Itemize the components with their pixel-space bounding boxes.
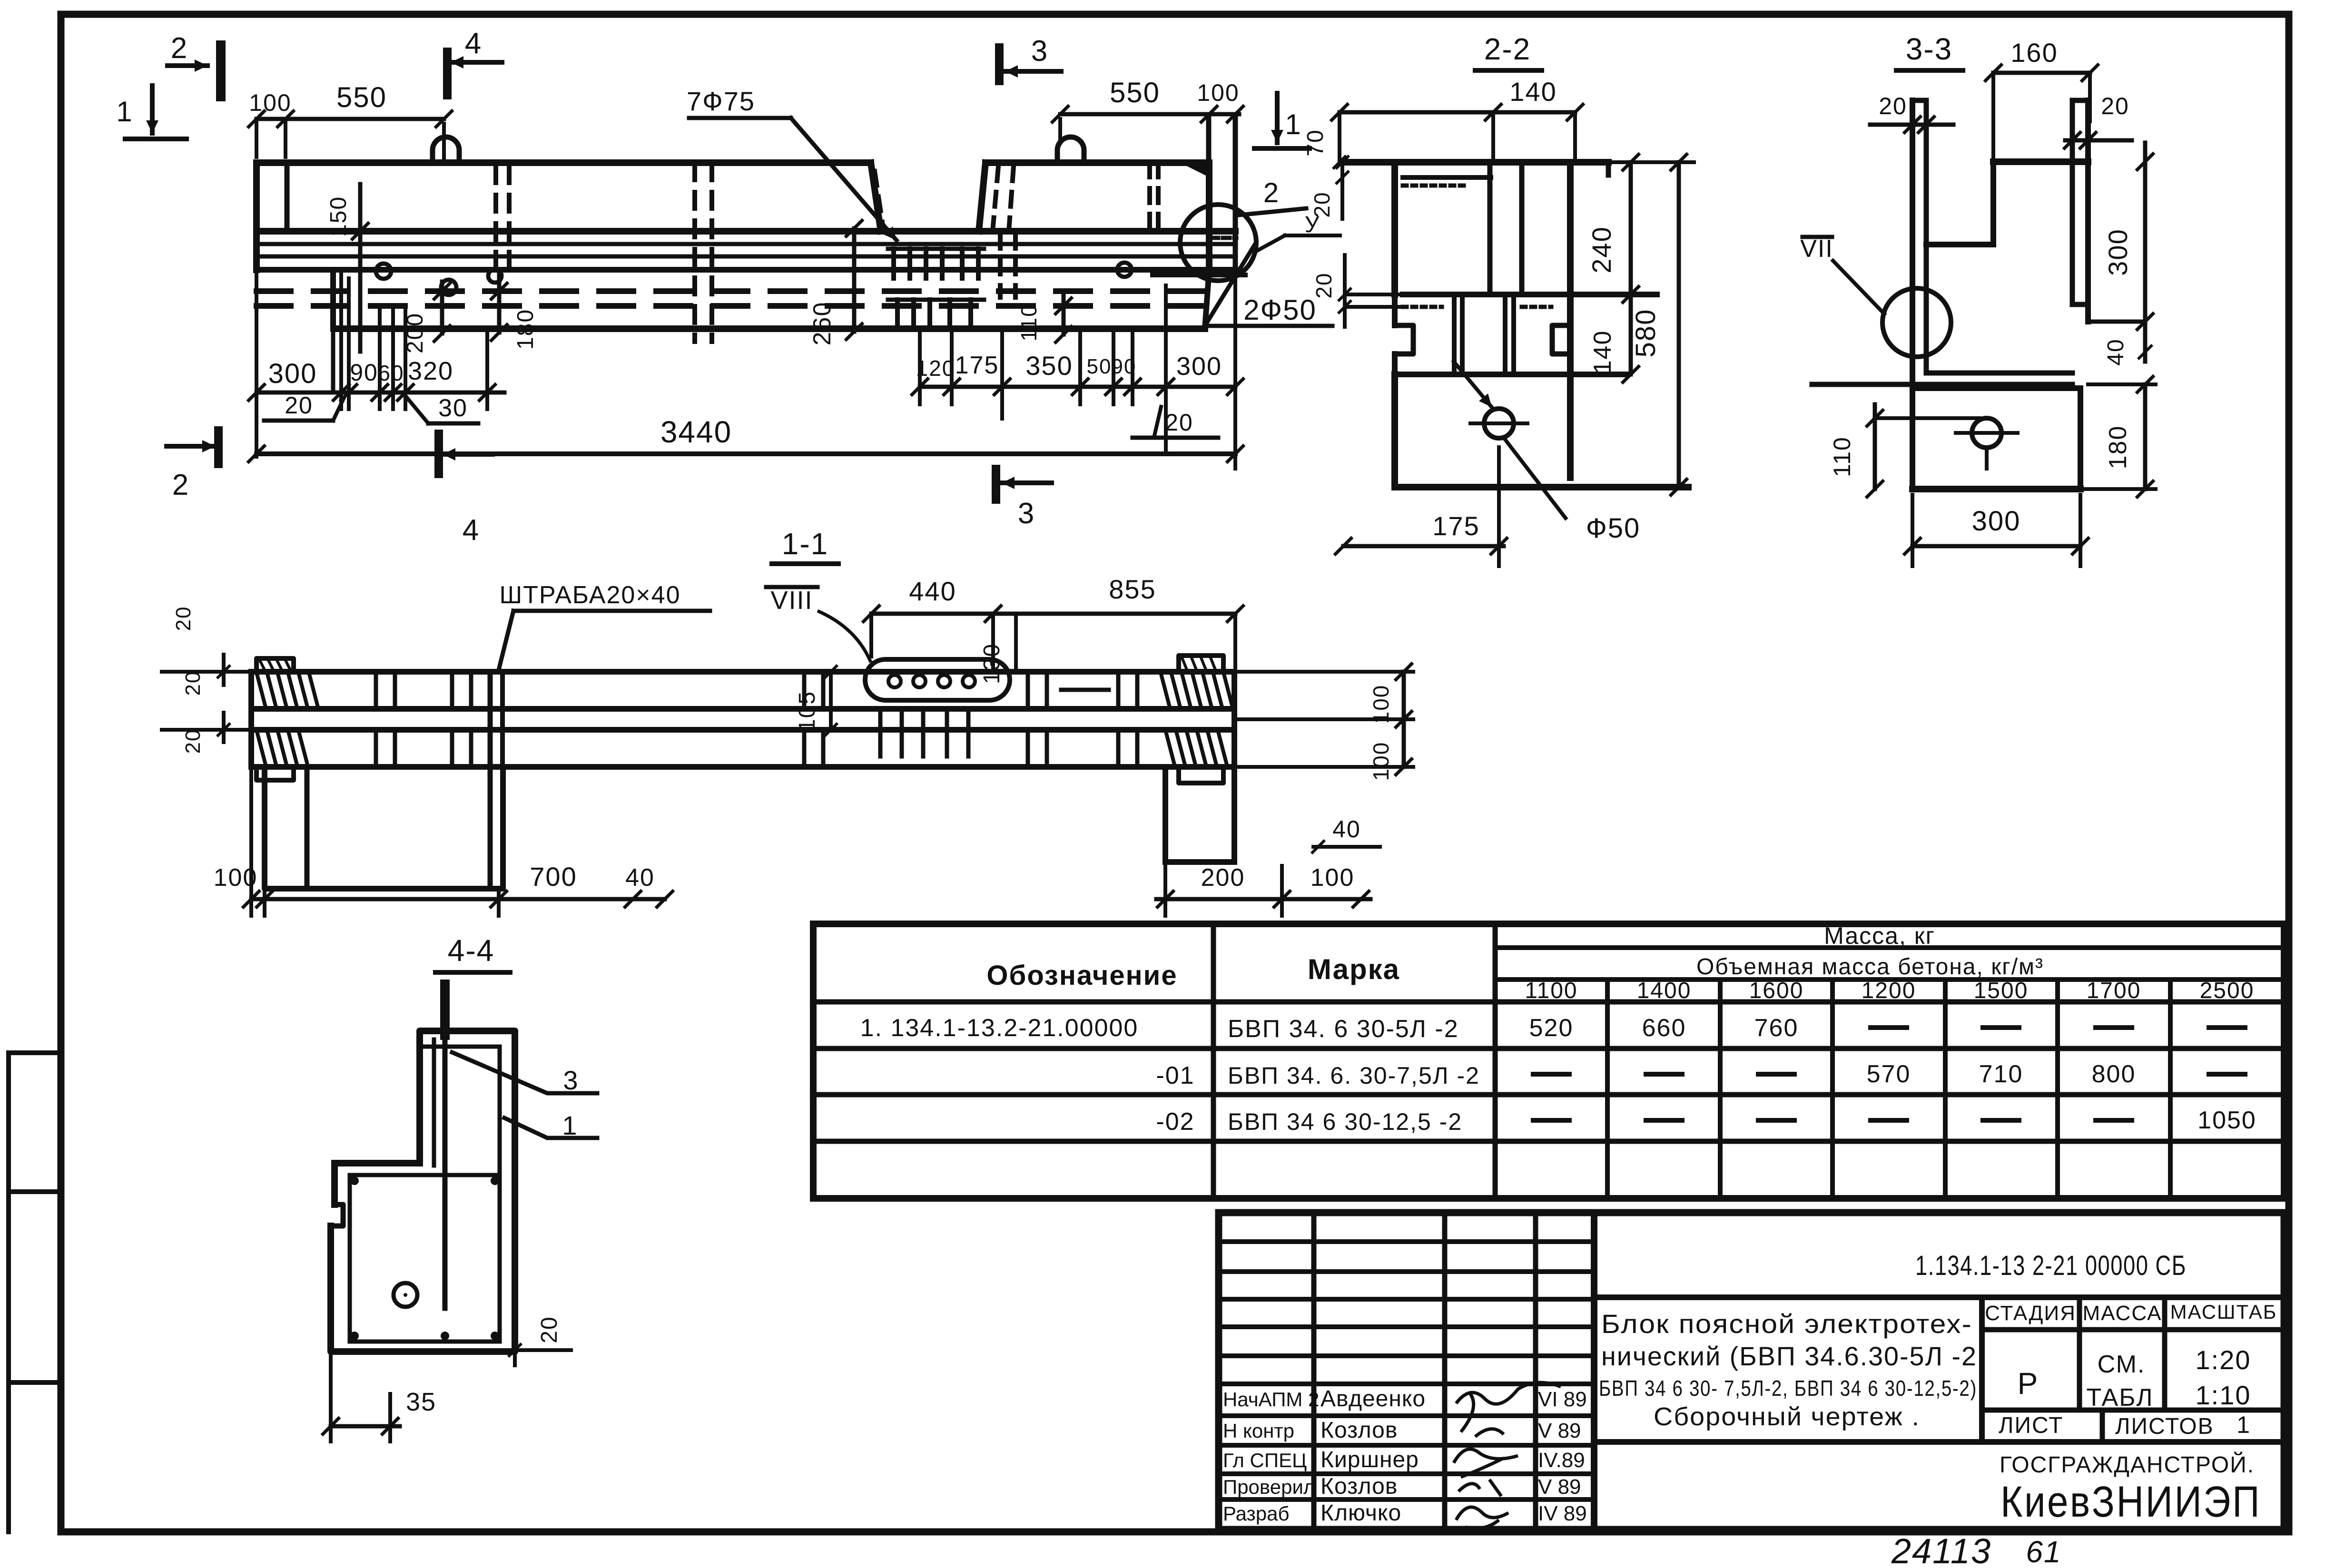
left column inner edge <box>285 163 290 231</box>
svg-text:20: 20 <box>1310 191 1334 217</box>
block A dashed verticals <box>692 164 697 342</box>
svg-text:Козлов: Козлов <box>1320 1418 1398 1443</box>
svg-text:105: 105 <box>795 691 820 732</box>
svg-text:1600: 1600 <box>1749 978 1804 1003</box>
svg-text:300: 300 <box>2103 228 2133 275</box>
section 2-2 bottom web slab line <box>1395 372 1626 377</box>
dim row 300/90/60/320 bottom left <box>256 391 504 395</box>
bottom of cavity long line <box>1812 382 2072 387</box>
svg-text:4: 4 <box>463 514 480 547</box>
svg-text:Н контр: Н контр <box>1223 1420 1294 1442</box>
label 2 with leader <box>1240 208 1306 215</box>
svg-text:-01: -01 <box>1156 1062 1194 1089</box>
rebar dots <box>350 1176 359 1185</box>
table numeric column line <box>1943 980 1948 1198</box>
svg-text:260: 260 <box>808 302 836 346</box>
svg-text:300: 300 <box>1972 506 2021 537</box>
svg-text:VIII: VIII <box>770 586 813 615</box>
dim 300 right <box>2143 143 2148 333</box>
svg-text:нический (БВП 34.6.30-5Л -2: нический (БВП 34.6.30-5Л -2 <box>1601 1341 1977 1371</box>
section 4-4 outline <box>331 1031 515 1352</box>
dim 110 vertical <box>1062 295 1066 334</box>
svg-text:1:20: 1:20 <box>2196 1345 2251 1375</box>
svg-text:2: 2 <box>172 469 189 501</box>
dim 110 left <box>1873 404 1877 489</box>
beam left end edge <box>253 163 260 270</box>
svg-text:2: 2 <box>1263 177 1280 208</box>
table col: marka/masses <box>1493 924 1498 1198</box>
svg-text:700: 700 <box>530 862 577 892</box>
svg-text:40: 40 <box>625 864 655 892</box>
dash clusters <box>374 674 378 706</box>
signature table row line <box>1219 1269 1594 1274</box>
svg-text:60: 60 <box>378 361 404 385</box>
table numeric column line <box>1605 980 1610 1198</box>
svg-text:570: 570 <box>1867 1060 1911 1088</box>
inner rebar cage <box>348 1175 352 1342</box>
svg-text:1: 1 <box>562 1110 578 1140</box>
svg-text:-02: -02 <box>1156 1108 1194 1136</box>
signature scribbles <box>1456 1382 1561 1437</box>
svg-text:120: 120 <box>916 356 956 381</box>
signature table row line <box>1219 1324 1594 1329</box>
bottom dims right 200/100 <box>1156 897 1370 902</box>
svg-text:90: 90 <box>350 359 378 386</box>
dim 20 hook right <box>1133 436 1218 440</box>
signature table row line <box>1219 1239 1594 1244</box>
svg-text:НачАПМ 2: НачАПМ 2 <box>1223 1388 1319 1411</box>
svg-text:1700: 1700 <box>2087 978 2141 1003</box>
svg-text:Авдеенко: Авдеенко <box>1320 1386 1426 1411</box>
left notch <box>1395 325 1413 354</box>
svg-text:160: 160 <box>2010 38 2058 68</box>
bottom dims 100 / 700 / 40 <box>251 897 665 902</box>
svg-text:855: 855 <box>1109 574 1156 604</box>
svg-text:V 89: V 89 <box>1538 1419 1581 1442</box>
leader 3 <box>452 1052 597 1093</box>
signature table row line <box>1219 1353 1594 1358</box>
svg-text:35: 35 <box>406 1388 436 1416</box>
svg-text:20: 20 <box>2101 93 2129 119</box>
right end rebate dashes <box>1212 236 1236 240</box>
svg-text:ШТРАБА20×40: ШТРАБА20×40 <box>499 581 680 609</box>
svg-text:1100: 1100 <box>1525 978 1577 1003</box>
table row line 2 <box>813 1092 2284 1098</box>
table numeric column line <box>1718 980 1723 1198</box>
svg-text:V 89: V 89 <box>1538 1475 1581 1499</box>
svg-text:1200: 1200 <box>1862 978 1916 1003</box>
block A right slant edge <box>871 163 881 231</box>
svg-text:580: 580 <box>1630 309 1661 358</box>
detail circle VII <box>1882 288 1951 357</box>
svg-text:7Ф75: 7Ф75 <box>687 86 755 116</box>
right end hatch lower <box>1166 732 1174 764</box>
left dim 20 lower with extension lines <box>1343 255 1347 327</box>
svg-text:20: 20 <box>537 1316 562 1343</box>
right rotated dims 100/100 <box>1402 672 1406 767</box>
dim row 120/175/350/50/90/300 bottom right <box>920 385 1235 389</box>
svg-text:40: 40 <box>2103 338 2128 365</box>
block B outline <box>985 159 1200 166</box>
label 2Ф50 with leader <box>1205 245 1255 326</box>
small step-up tabs hatched <box>256 658 294 672</box>
dashes along block A slant <box>875 171 883 228</box>
svg-text:175: 175 <box>1432 511 1479 541</box>
section 2-2 middle slab <box>1403 292 1657 297</box>
dim 100/550 top left <box>256 117 444 121</box>
arrow mid small <box>1061 688 1109 692</box>
left end hatch upper <box>257 674 266 707</box>
svg-text:1. 134.1-13.2-21.00000: 1. 134.1-13.2-21.00000 <box>860 1014 1139 1042</box>
svg-text:Киршнер: Киршнер <box>1320 1447 1419 1472</box>
dim 180 right <box>2143 384 2148 489</box>
left margin attachment boxes <box>6 1053 11 1532</box>
stadiya/massa/masshtab <box>1979 1297 1985 1442</box>
svg-text:2500: 2500 <box>2200 978 2255 1003</box>
signature table column line <box>1442 1213 1448 1529</box>
section 2-2 bottom block <box>1391 374 1398 487</box>
svg-text:24113: 24113 <box>1891 1531 1991 1568</box>
table: mass table <box>813 924 2284 1198</box>
svg-text:520: 520 <box>1529 1014 1574 1042</box>
svg-text:МАСШТАБ: МАСШТАБ <box>2170 1301 2277 1323</box>
svg-text:1: 1 <box>116 96 133 127</box>
left end hatch lower <box>257 732 266 764</box>
svg-text:40: 40 <box>1332 816 1361 843</box>
beam band dashed axis lines <box>256 288 1209 294</box>
dim 200 vertical <box>440 282 444 333</box>
svg-text:VI 89: VI 89 <box>1538 1388 1587 1411</box>
svg-text:175: 175 <box>955 352 999 379</box>
left dims 20/20 <box>222 655 226 685</box>
svg-text:140: 140 <box>1589 330 1616 374</box>
table numeric column line <box>1830 980 1835 1198</box>
dim 300 bottom <box>1912 544 2080 549</box>
1-1 lower wall band <box>251 727 1234 733</box>
svg-text:Ключко: Ключко <box>1320 1500 1401 1526</box>
top block 160 <box>1993 158 2088 165</box>
dim 30 with hook <box>428 421 478 426</box>
beam right end <box>1233 119 1238 275</box>
svg-text:300: 300 <box>1176 352 1222 381</box>
block B right wedge (solid) <box>1180 163 1209 177</box>
right extension block <box>1163 767 1168 862</box>
svg-text:3: 3 <box>563 1065 579 1095</box>
svg-text:1: 1 <box>2236 1411 2251 1438</box>
signature table row line <box>1219 1443 1594 1448</box>
svg-text:1.134.1-13 2-21 00000 СБ: 1.134.1-13 2-21 00000 СБ <box>1915 1250 2187 1281</box>
svg-text:20: 20 <box>181 671 205 696</box>
rebar sticking up <box>440 984 450 1035</box>
svg-text:2Ф50: 2Ф50 <box>1243 294 1317 326</box>
dim 260 vertical <box>852 228 857 332</box>
svg-text:VII: VII <box>1800 235 1833 263</box>
svg-text:Объемная масса бетона, кг/м³: Объемная масса бетона, кг/м³ <box>1696 954 2044 980</box>
oval void detail <box>865 659 1010 700</box>
svg-text:20: 20 <box>1165 409 1193 436</box>
svg-text:IV 89: IV 89 <box>1538 1502 1587 1525</box>
svg-text:110: 110 <box>1829 436 1855 477</box>
svg-text:4: 4 <box>465 27 482 60</box>
svg-text:3-3: 3-3 <box>1906 32 1953 66</box>
svg-text:МАССА: МАССА <box>2083 1302 2162 1325</box>
leader 1 <box>504 1118 597 1138</box>
formwork insert dashes middle <box>891 249 896 278</box>
svg-text:150: 150 <box>326 196 351 237</box>
svg-text:61: 61 <box>2026 1535 2061 1568</box>
svg-text:1500: 1500 <box>1974 978 2029 1003</box>
bottom rib of beam <box>330 270 336 329</box>
signature table row line <box>1219 1297 1594 1302</box>
svg-text:660: 660 <box>1642 1014 1686 1042</box>
right end hatch upper <box>1161 674 1170 707</box>
svg-text:800: 800 <box>2092 1060 2136 1088</box>
signature table <box>1591 1213 1597 1529</box>
signature table column line <box>1533 1213 1538 1529</box>
svg-text:БВП 34 6 30- 7,5Л-2, БВП 34 6: БВП 34 6 30- 7,5Л-2, БВП 34 6 30-12,5-2) <box>1599 1376 1977 1401</box>
svg-text:Обозначение: Обозначение <box>986 960 1177 991</box>
svg-text:1: 1 <box>1285 108 1301 140</box>
svg-text:3440: 3440 <box>660 415 732 449</box>
svg-text:50: 50 <box>1087 355 1112 378</box>
svg-text:КиевЗНИИЭП: КиевЗНИИЭП <box>2000 1478 2261 1526</box>
dim 20 with hook <box>264 419 333 423</box>
svg-text:550: 550 <box>1110 77 1160 108</box>
1-1 upper wall band <box>251 669 1234 675</box>
dim 160 top <box>1993 71 2090 75</box>
section 3-3 left wall double lines <box>1910 100 1915 489</box>
svg-text:440: 440 <box>909 576 956 606</box>
table col: oboznachenie/marka <box>1211 924 1216 1198</box>
svg-text:Сборочный чертеж .: Сборочный чертеж . <box>1654 1402 1920 1431</box>
svg-text:200: 200 <box>1201 864 1245 892</box>
svg-text:ЛИСТ: ЛИСТ <box>1999 1413 2063 1438</box>
dim 440 / 855 top <box>871 612 1235 616</box>
dim 550/100 top right <box>1060 112 1239 117</box>
svg-text:ТАБЛ: ТАБЛ <box>2087 1384 2154 1411</box>
svg-text:ГОСГРАЖДАНСТРОЙ.: ГОСГРАЖДАНСТРОЙ. <box>2000 1451 2255 1478</box>
svg-text:760: 760 <box>1754 1014 1799 1042</box>
left dim 20 upper <box>1340 162 1344 219</box>
svg-text:180: 180 <box>513 309 538 350</box>
dim 140 right <box>1629 294 1633 374</box>
right end upper column <box>1151 159 1209 166</box>
table header bottom line <box>813 1000 2284 1005</box>
middle web double lines <box>1452 294 1457 374</box>
svg-text:Гл СПЕЦ: Гл СПЕЦ <box>1223 1449 1307 1471</box>
small circles (holes) in band <box>376 264 391 279</box>
lifting hook A <box>433 137 459 163</box>
svg-text:20: 20 <box>1879 93 1907 119</box>
svg-text:Р: Р <box>2018 1366 2039 1401</box>
detail circle У <box>1180 205 1256 281</box>
svg-text:20: 20 <box>285 392 313 419</box>
svg-text:СТАДИЯ: СТАДИЯ <box>1985 1302 2076 1325</box>
circle with dot <box>394 1283 417 1307</box>
list row <box>1594 1439 2284 1445</box>
svg-text:710: 710 <box>1979 1060 2023 1088</box>
right wall double lines <box>2085 100 2091 322</box>
svg-text:180: 180 <box>2104 425 2132 470</box>
svg-text:Масса, кг: Масса, кг <box>1824 922 1935 949</box>
dim 180 vertical <box>497 274 502 333</box>
svg-text:20: 20 <box>181 729 205 754</box>
svg-text:Блок поясной электротех-: Блок поясной электротех- <box>1601 1309 1972 1339</box>
svg-text:БВП 34 6 30-12,5 -2: БВП 34 6 30-12,5 -2 <box>1228 1108 1462 1135</box>
table numeric column line <box>2055 980 2060 1198</box>
dim 35 bottom <box>331 1424 400 1429</box>
svg-text:IV.89: IV.89 <box>1538 1449 1585 1472</box>
svg-text:350: 350 <box>1025 351 1073 381</box>
svg-text:2: 2 <box>171 32 188 65</box>
svg-text:Козлов: Козлов <box>1320 1474 1398 1499</box>
svg-text:Ф50: Ф50 <box>1586 513 1641 544</box>
svg-text:100: 100 <box>1369 742 1393 781</box>
dim 40 right <box>2143 322 2148 362</box>
svg-text:130: 130 <box>979 643 1005 684</box>
table row line 3 <box>813 1139 2284 1144</box>
svg-text:100: 100 <box>1197 79 1239 106</box>
dim 3440 <box>256 451 1235 456</box>
right notch <box>1552 325 1570 354</box>
svg-text:БВП 34. 6 30-5Л -2: БВП 34. 6 30-5Л -2 <box>1228 1015 1459 1043</box>
block B dashed verticals <box>993 167 998 231</box>
dotted rebate strip <box>1403 184 1466 188</box>
title block outer <box>1219 1213 2284 1529</box>
section 2-2 dim 140 top <box>1340 110 1575 115</box>
dim 240 right <box>1629 162 1633 294</box>
table line under volume mass <box>1495 977 2284 982</box>
bottom block <box>1912 385 2080 391</box>
svg-text:4-4: 4-4 <box>448 933 495 968</box>
svg-text:ЛИСТОВ: ЛИСТОВ <box>2115 1414 2214 1439</box>
beam band horizontal lines <box>256 228 1235 235</box>
signature table column line <box>1311 1213 1317 1529</box>
svg-text:100: 100 <box>1310 864 1355 892</box>
long vertical bar <box>443 1035 448 1308</box>
step right 40 <box>2072 302 2088 307</box>
hole circle <box>1484 409 1514 438</box>
svg-text:Проверил: Проверил <box>1223 1476 1315 1498</box>
signature table row line <box>1219 1497 1594 1502</box>
dim 20 top right <box>2065 138 2132 143</box>
dim 580 right <box>1677 162 1681 487</box>
table numeric column line <box>2168 980 2173 1198</box>
left dim 70 <box>1338 112 1341 162</box>
signature table row line <box>1219 1382 1594 1386</box>
signature table row line <box>1219 1471 1594 1476</box>
svg-text:240: 240 <box>1586 226 1616 273</box>
designation box line <box>1594 1294 2284 1300</box>
signature table row line <box>1219 1413 1594 1418</box>
table line under massa kg <box>1495 945 2284 950</box>
svg-text:70: 70 <box>1303 129 1328 156</box>
svg-text:2-2: 2-2 <box>1484 32 1531 66</box>
table row line 1 <box>813 1046 2284 1051</box>
dim 20 top left <box>1870 123 1953 127</box>
svg-text:1400: 1400 <box>1637 978 1692 1003</box>
svg-text:3: 3 <box>1018 497 1035 530</box>
svg-text:1050: 1050 <box>2197 1107 2256 1134</box>
svg-text:СМ.: СМ. <box>2098 1351 2146 1378</box>
svg-text:Марка: Марка <box>1308 953 1400 985</box>
svg-text:20: 20 <box>172 606 195 631</box>
svg-text:1-1: 1-1 <box>782 527 829 561</box>
lower-left extension block <box>265 767 503 889</box>
svg-text:300: 300 <box>268 358 317 389</box>
hole circle 3-3 <box>1972 418 2001 448</box>
svg-text:20: 20 <box>1311 272 1336 298</box>
dim 20 right bottom <box>502 1348 571 1352</box>
svg-text:320: 320 <box>408 357 453 385</box>
block A dashed pair left <box>493 167 498 281</box>
lifting hook B <box>1057 137 1084 163</box>
dim 150 vertical <box>358 184 363 352</box>
section 2-2 outline top slab <box>1343 159 1608 166</box>
beam upper block A top edge <box>256 159 871 166</box>
svg-text:110: 110 <box>1016 304 1041 341</box>
svg-text:3: 3 <box>1031 35 1048 68</box>
svg-text:БВП 34. 6. 30-7,5Л -2: БВП 34. 6. 30-7,5Л -2 <box>1228 1062 1480 1089</box>
svg-text:1:10: 1:10 <box>2196 1380 2251 1410</box>
dim 175 bottom <box>1343 544 1504 549</box>
svg-text:Разраб: Разраб <box>1223 1502 1290 1525</box>
svg-text:30: 30 <box>438 394 468 422</box>
svg-text:140: 140 <box>1509 77 1557 107</box>
svg-text:100: 100 <box>249 89 291 116</box>
svg-text:550: 550 <box>336 81 387 113</box>
